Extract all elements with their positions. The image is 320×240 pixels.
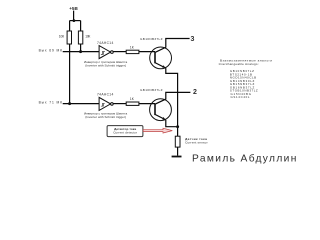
svg-text:(Inverter with Schmitt trigger: (Inverter with Schmitt trigger) <box>85 63 126 67</box>
wire: left pull-up resistor top lead <box>69 21 71 31</box>
resistor R2 10K (right pull-up) <box>78 31 82 44</box>
svg-text:3: 3 <box>190 36 194 43</box>
junction node emitters to shunt <box>176 125 179 128</box>
wire: shunt resistor R5 to ground <box>177 147 179 156</box>
wire: emitter of Q1 route down to shunt junction <box>166 68 178 127</box>
wire: lower input rail from Vyh 71 MK to inverter U2 input <box>63 103 99 105</box>
wire: upper input rail from Vyh 69 MK to inverter U1 input <box>63 51 99 53</box>
junction node right resistor to upper rail <box>79 50 82 53</box>
wire: resistor R3 to base of Q1 <box>139 51 155 53</box>
transistor Q1 emitter arrowhead <box>162 65 165 68</box>
svg-text:Вых 71 МК: Вых 71 МК <box>39 101 62 105</box>
svg-text:74AHC14: 74AHC14 <box>97 92 113 96</box>
wire: collector of Q2 up and right to terminal 2 <box>155 92 190 104</box>
svg-text:2: 2 <box>193 89 197 96</box>
wire: inverter U2 output to resistor R4 <box>113 103 126 105</box>
svg-text:10К: 10К <box>85 35 90 39</box>
junction node left resistor to lower rail <box>68 102 71 105</box>
svg-text:Interchangeable Analogs:: Interchangeable Analogs: <box>219 62 259 66</box>
+5V supply wire stub <box>73 11 75 21</box>
op-amp U2: inverter 74AHC14 lower triangle <box>99 97 113 110</box>
wire: inverter U1 output to resistor R3 <box>113 51 126 53</box>
callout box: current detector <box>107 126 143 137</box>
ground <box>172 156 182 158</box>
resistor R3 1K (upper gate resistor) <box>126 50 139 53</box>
svg-text:Current detector: Current detector <box>113 131 137 135</box>
svg-text:GB10NB37LZ: GB10NB37LZ <box>140 88 163 92</box>
resistor R4 1K (lower gate resistor) <box>126 102 139 105</box>
wire: collector of Q1 up and right to terminal 3 <box>155 39 190 53</box>
transistor Q2 base bar <box>154 103 156 115</box>
junction node at +5V split <box>73 19 76 22</box>
wire: right pull-up resistor bottom lead <box>80 44 82 52</box>
svg-text:+5В: +5В <box>69 6 78 11</box>
transistor Q1 GB10NB37LZ circle <box>150 47 172 69</box>
svg-text:10К: 10К <box>59 35 64 39</box>
svg-text:GS14C40L: GS14C40L <box>231 95 250 99</box>
svg-text:(Inverter with Schmitt trigger: (Inverter with Schmitt trigger) <box>85 115 126 119</box>
schmitt trigger glyph U1 <box>101 52 105 55</box>
svg-text:1К: 1К <box>130 97 134 101</box>
schmitt trigger glyph U2 <box>101 104 105 107</box>
resistor R5 current sense shunt <box>175 136 180 147</box>
antialias mode helper (invisible) <box>299 167 300 168</box>
transistor Q1 base bar <box>154 52 156 64</box>
wire: emitter of Q2 route to shunt junction <box>166 120 178 127</box>
wire: left pull-up resistor bottom lead down to lower rail <box>69 44 71 104</box>
wire: top bar joining pull-up resistors <box>70 20 81 22</box>
svg-text:Вых 69 МК: Вых 69 МК <box>39 49 62 53</box>
wire: resistor R4 to base of Q2 <box>139 103 155 105</box>
svg-text:74AHC14: 74AHC14 <box>97 41 113 45</box>
wire: right pull-up resistor top lead <box>80 21 82 31</box>
transistor Q2 emitter arrowhead <box>162 117 165 120</box>
transistor Q2 GB10NB37LZ circle <box>150 99 172 121</box>
red callout arrow pointing at shunt <box>143 128 172 133</box>
wire: junction down to shunt resistor R5 <box>177 127 179 137</box>
svg-text:Рамиль Абдуллин: Рамиль Абдуллин <box>192 153 296 165</box>
wire: emitter of Q2 diagonal <box>155 114 166 120</box>
svg-text:GB10NB37LZ: GB10NB37LZ <box>140 37 163 41</box>
wire: emitter of Q1 diagonal <box>155 63 166 69</box>
op-amp U1: inverter 74AHC14 upper triangle <box>99 46 113 59</box>
svg-text:Current sensor: Current sensor <box>185 141 208 145</box>
resistor R1 10K (left pull-up) <box>67 31 71 44</box>
svg-text:1К: 1К <box>130 45 134 49</box>
